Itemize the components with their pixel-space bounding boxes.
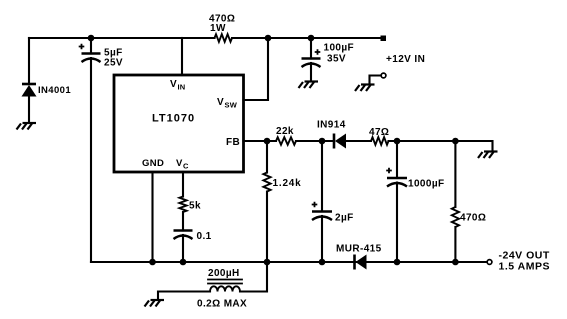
wire node C down to C4 [396,141,398,178]
wire bottom -24V rail [91,261,487,263]
label R1 power 1W [210,23,226,34]
label C2 voltage 35V [327,54,346,65]
wire node B down to C3 [321,141,323,212]
resistor R6 5k [179,197,186,213]
op-amp U1 LT1070 regulator box [114,75,244,172]
node top rail / C2 [308,35,315,42]
label D1 1N4001 [38,85,71,96]
label C1 voltage 25V [104,58,123,69]
inductor L1 200µH coil [210,286,240,291]
resistor R3 47Ω [371,137,389,145]
label U1 LT1070 [152,113,195,125]
label -24V OUT [499,250,550,262]
svg-text:2µF: 2µF [335,213,354,224]
node bottom rail / VC branch [180,259,187,266]
wire L1 to ground [158,292,210,300]
capacitor C5 0.1 [174,231,193,240]
svg-text:+12V IN: +12V IN [386,54,425,65]
node bottom rail / C4 branch [394,259,401,266]
ground below C2 [299,82,319,89]
wire C2 bottom lead to ground [310,63,312,81]
svg-text:V: V [170,79,177,90]
pin label VC [176,158,189,171]
ground below D1 [17,123,37,130]
pin label VSW [217,97,238,110]
wire +12V return to ground [370,76,382,85]
capacitor C2 100µF [302,59,321,68]
polarity + of C4 [386,168,392,174]
svg-text:LT1070: LT1070 [152,113,195,125]
wire top +12V rail [29,37,383,39]
svg-text:FB: FB [226,137,240,148]
node bottom rail / C3 branch [319,259,326,266]
label R1 value 470Ω [209,14,235,25]
terminal +12V IN square [381,36,387,42]
svg-text:1.5 AMPS: 1.5 AMPS [499,261,550,273]
svg-text:0.1: 0.1 [197,231,212,242]
node bottom rail / L1 tap [264,259,271,266]
diode D3 MUR-415 [355,255,367,270]
wire R2 to D2 [296,140,333,142]
node D 470Ω junction [452,138,459,145]
svg-text:1W: 1W [210,23,226,34]
wire D2 to R3 [346,140,371,142]
svg-text:IN4001: IN4001 [38,85,71,96]
svg-text:V: V [176,158,183,169]
resistor R4 1.24k [263,173,270,192]
label C1 value 5µF [104,48,123,59]
inductor L1 core bars [208,280,242,284]
wire R6 to C5 [182,212,184,231]
label L1 value 200µH [208,268,240,279]
label R5 value 470Ω [460,213,486,224]
svg-text:22k: 22k [276,126,294,137]
wire R5 to bottom rail [454,227,456,262]
svg-text:IN: IN [178,83,186,92]
svg-text:0.2Ω MAX: 0.2Ω MAX [197,299,247,310]
wire VC pin down to R6 [182,172,184,197]
wire C1 bottom lead to bottom rail [90,58,92,262]
wire GND pin to bottom rail [151,172,153,262]
svg-text:IN914: IN914 [317,120,346,131]
capacitor C3 2µF [312,212,332,221]
terminal -24V OUT circle [487,260,492,265]
svg-text:5k: 5k [189,201,201,212]
wire left rail drop to D1 [28,38,30,84]
polarity + of C3 [312,202,318,208]
capacitor C4 1000µF [387,178,407,187]
label C3 value 2µF [335,213,354,224]
svg-text:V: V [217,97,224,108]
pin label FB [226,137,240,148]
node A FB junction [264,138,271,145]
pin label VIN [170,79,185,92]
node C 1000µF junction [394,138,401,145]
label R6 value 5k [189,201,201,212]
wire C1 top lead [90,38,92,54]
label R2 value 22k [276,126,294,137]
label C4 value 1000µF [408,179,445,190]
resistor R5 470Ω [452,207,459,227]
diode D2 1N914 [334,134,346,149]
wire C4 to bottom rail [396,183,398,263]
resistor R2 22k [276,137,296,145]
wire node D down to R5 [454,141,456,207]
label C2 value 100µF [324,43,355,54]
polarity + of C1 [79,44,85,50]
label 1.5 AMPS [499,261,550,273]
ground right of FB row [478,152,498,159]
label D2 1N914 [317,120,346,131]
svg-text:C: C [183,162,189,171]
node bottom rail / R5 branch [452,259,459,266]
svg-text:470Ω: 470Ω [460,213,486,224]
label R4 value 1.24k [273,178,302,189]
wire VIN pin to top rail [181,38,183,75]
pin label GND [142,158,164,169]
label +12V IN [386,54,425,65]
terminal +12V return circle [381,73,386,78]
svg-text:47Ω: 47Ω [369,127,389,138]
ground at +12V return [355,85,375,92]
svg-text:100µF: 100µF [324,43,355,54]
label R3 value 47Ω [369,127,389,138]
svg-text:1.24k: 1.24k [273,178,302,189]
svg-text:MUR-415: MUR-415 [336,244,382,255]
wire node A down to R4 [266,141,268,173]
node top rail / C1 [88,35,95,42]
svg-text:1000µF: 1000µF [408,179,445,190]
svg-text:25V: 25V [104,58,123,69]
capacitor C1 5µF [82,54,101,63]
wire C3 to bottom rail [321,216,323,262]
ground at L1 [145,300,165,307]
svg-text:GND: GND [142,158,164,169]
svg-text:200µH: 200µH [208,268,240,279]
resistor R1 470Ω 1W [215,34,233,42]
label D3 MUR-415 [336,244,382,255]
node B D2 anode junction [319,138,326,145]
wire L1 branch right riser [240,262,267,292]
polarity + of C2 [315,49,321,55]
label C5 value 0.1 [197,231,212,242]
wire VSW pin riser to top rail [244,38,269,100]
node bottom rail / GND pin [149,259,156,266]
wire D1 anode to ground [28,97,30,123]
wire R4 to bottom rail [266,192,268,263]
wire C2 top lead [310,38,312,59]
diode D1 1N4001 [22,84,37,97]
wire C5 to bottom rail [182,235,184,262]
node VSW riser / top rail [265,35,272,42]
wire R3 to ground corner [389,141,493,151]
svg-text:35V: 35V [327,54,346,65]
label L1 resistance 0.2Ω MAX [197,299,247,310]
svg-text:SW: SW [225,101,238,110]
wire FB pin to node A [244,140,277,142]
